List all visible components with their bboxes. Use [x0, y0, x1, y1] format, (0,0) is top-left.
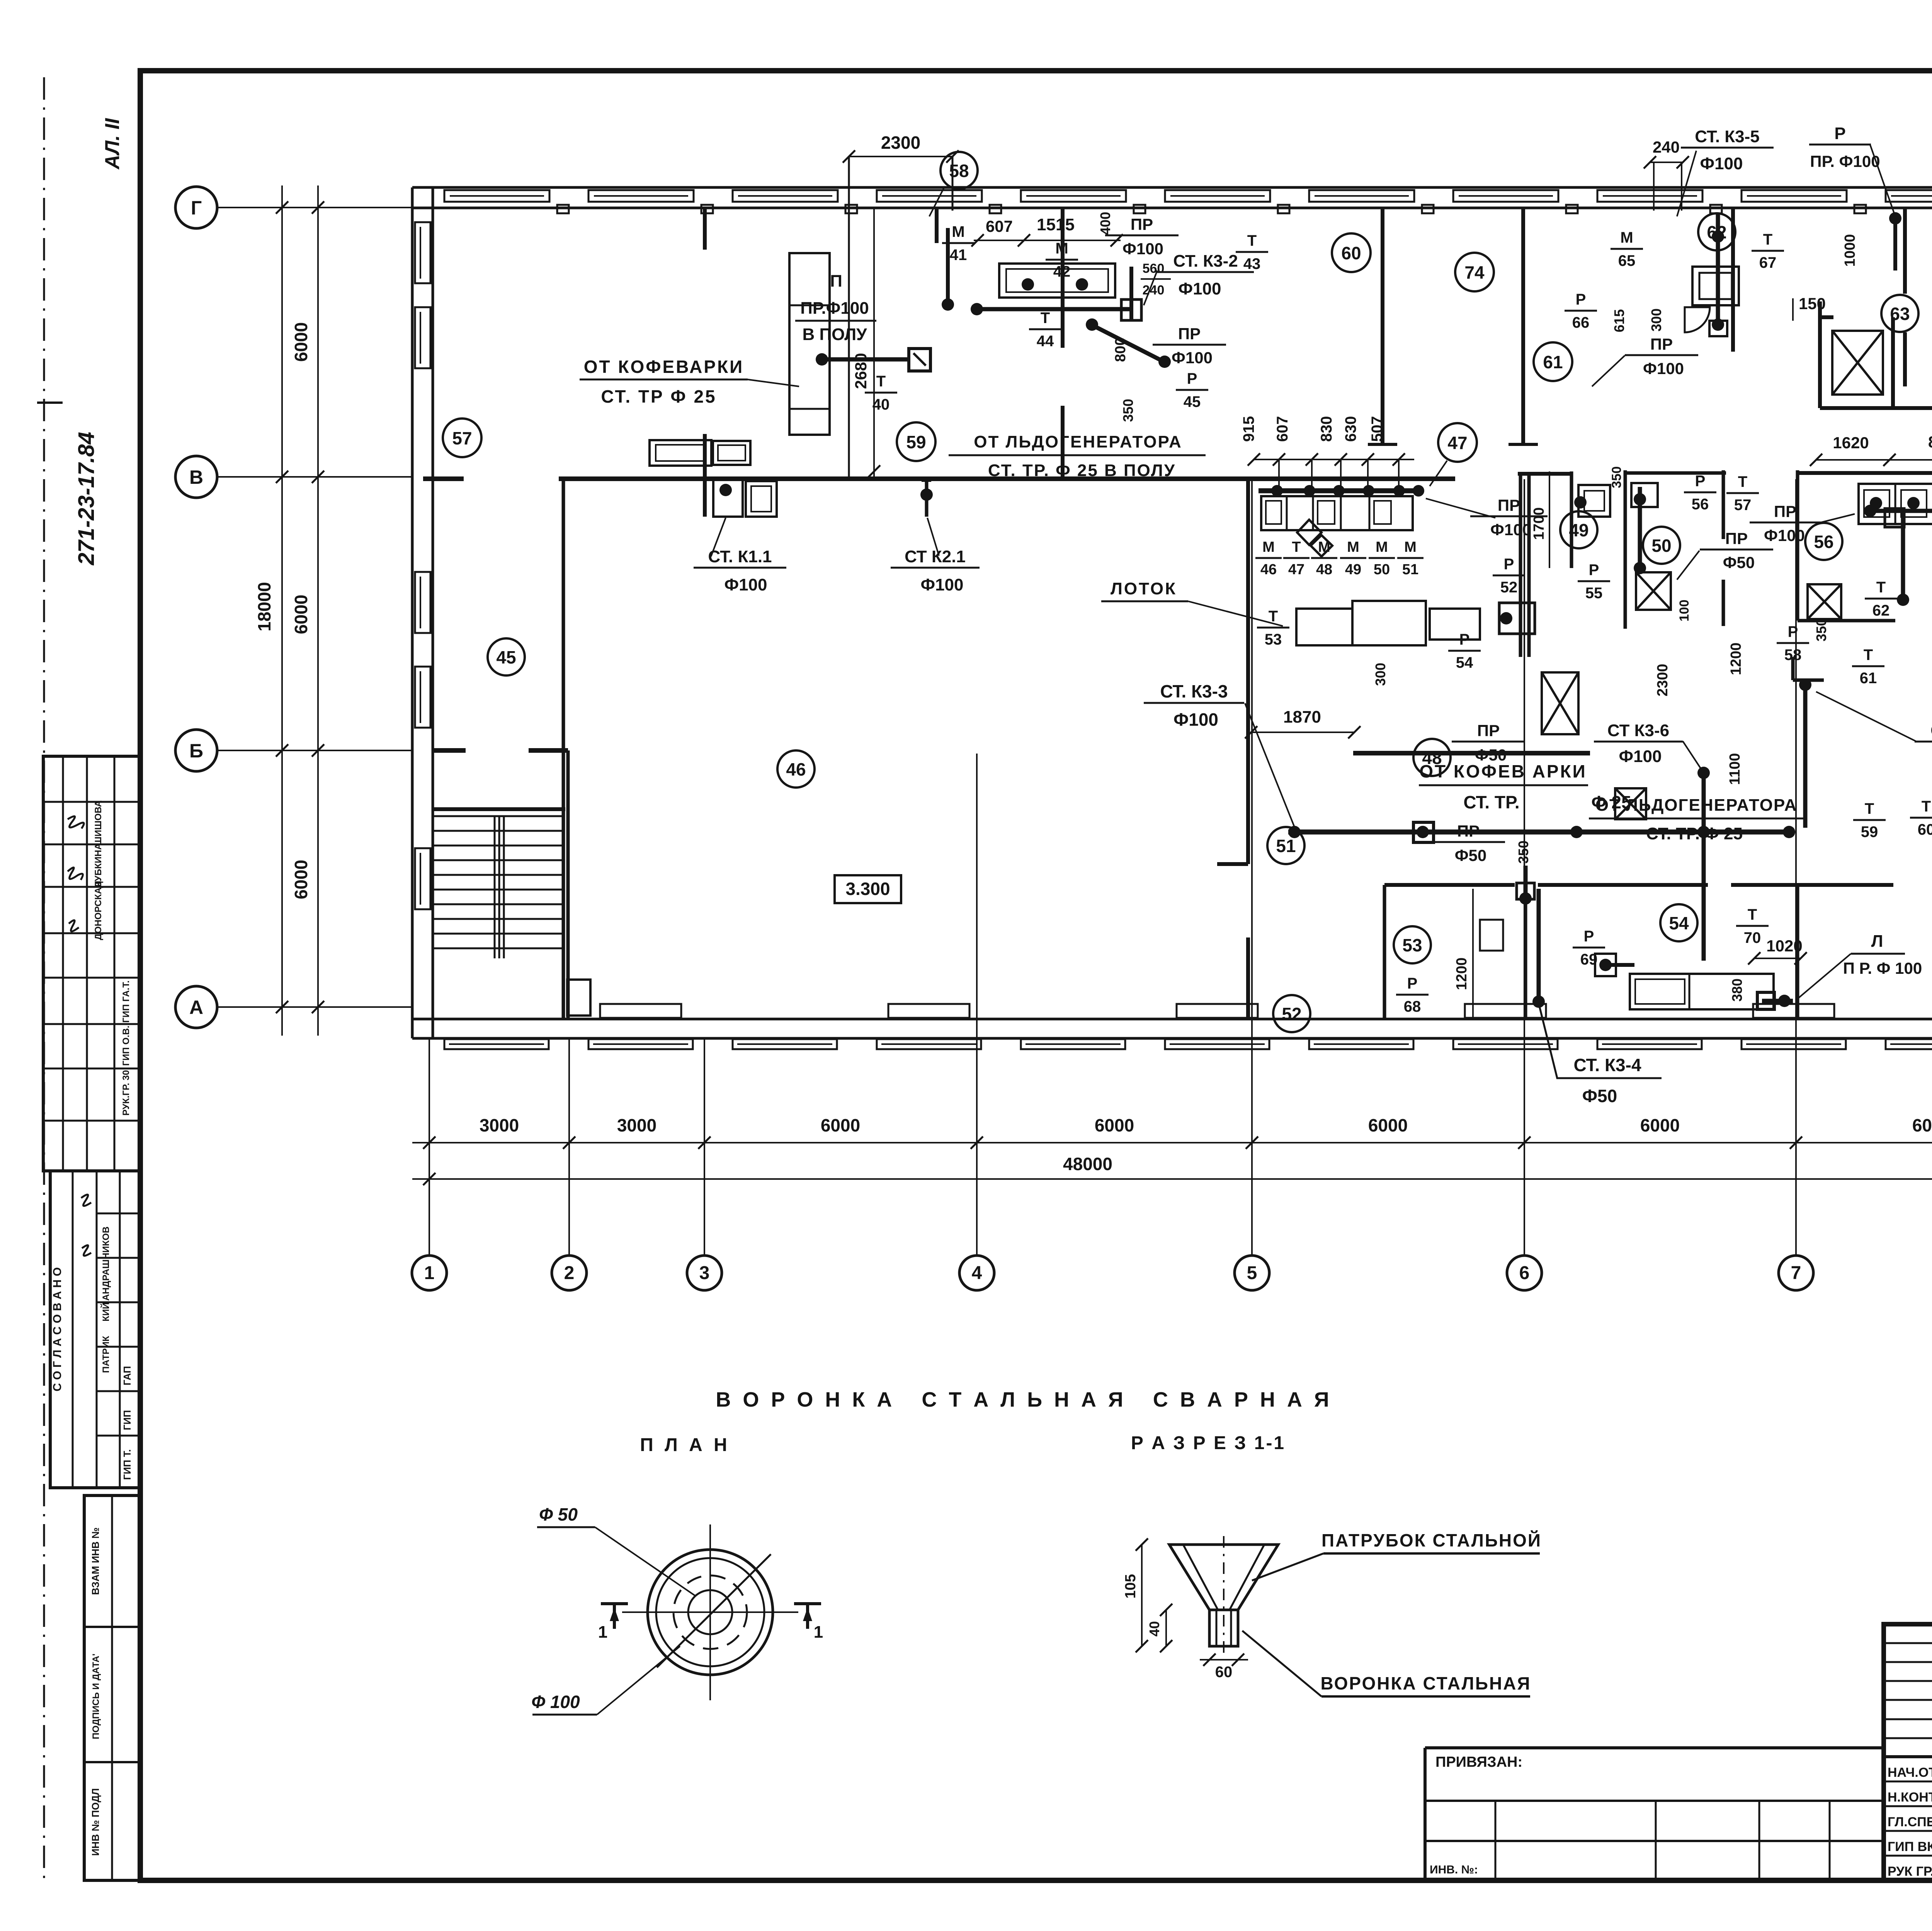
svg-text:49: 49 [1345, 561, 1361, 578]
room 59 circle [897, 422, 935, 461]
svg-text:Ф100: Ф100 [1179, 279, 1221, 298]
svg-text:ОТ КОФЕВ АРКИ: ОТ КОФЕВ АРКИ [1419, 761, 1587, 781]
pipe run М41-42 [974, 307, 1131, 311]
svg-text:Т: Т [1876, 579, 1886, 596]
dim 1020 [1754, 958, 1801, 959]
svg-text:56: 56 [1814, 532, 1833, 552]
stamp signatures scribbles [68, 816, 84, 829]
svg-text:ПР: ПР [1178, 325, 1201, 343]
fold mark dash-dot line [43, 77, 45, 1878]
room 62 circle [1698, 213, 1735, 250]
svg-text:Т: Т [1763, 231, 1772, 248]
svg-text:Ф100: Ф100 [1643, 359, 1684, 378]
tee fitting В ПОЛУ [909, 349, 930, 371]
svg-text:Н.КОНТР.: Н.КОНТР. [1888, 1790, 1932, 1805]
svg-text:50: 50 [1374, 561, 1390, 578]
svg-text:СТ. К3-3: СТ. К3-3 [1160, 681, 1228, 701]
svg-text:2300: 2300 [1655, 664, 1671, 697]
svg-text:Т: Т [1748, 906, 1757, 923]
svg-text:Л: Л [1871, 932, 1883, 951]
partition x4652 lower (axis 7) [1796, 885, 1799, 1019]
svg-text:М: М [1376, 539, 1388, 555]
svg-text:Т: Т [1864, 647, 1873, 664]
top wall windows [444, 190, 549, 202]
svg-text:54: 54 [1456, 654, 1473, 671]
svg-text:СТ К3-6: СТ К3-6 [1607, 721, 1669, 740]
svg-text:40: 40 [872, 396, 890, 413]
svg-text:607: 607 [1274, 416, 1291, 442]
left stamp: lower boxes ВЗАМ/ПОДПИСЬ/ИНВ [84, 1495, 140, 1880]
stair treads left stairwell [434, 815, 563, 817]
svg-text:РУК.ГР. 30: РУК.ГР. 30 [121, 1070, 131, 1116]
svg-text:55: 55 [1585, 585, 1603, 602]
svg-text:СТ К2.1: СТ К2.1 [905, 547, 966, 566]
svg-text:АЛ. II: АЛ. II [101, 118, 124, 170]
riser К3-7 zone [1799, 679, 1811, 691]
row axis circle Г [175, 187, 217, 228]
svg-text:46: 46 [786, 759, 806, 779]
fixture with dot near 3945 wall [1499, 603, 1535, 634]
room 56 pipes [1866, 509, 1932, 513]
svg-text:6000: 6000 [1912, 1115, 1932, 1135]
room 62 washbasin [1692, 267, 1739, 305]
svg-text:В О Р О Н К А С Т А Л Ь Н А: В О Р О Н К А С Т А Л Ь Н А Я С В А Р Н … [716, 1388, 1332, 1411]
svg-text:ГЛ.СПЕЦ.: ГЛ.СПЕЦ. [1888, 1815, 1932, 1829]
svg-text:560: 560 [1143, 261, 1165, 276]
witness line 2300 right [952, 157, 954, 211]
bay dimension line with ticks [412, 1142, 1932, 1143]
svg-text:М: М [1318, 539, 1330, 555]
column axis circle 6 [1507, 1256, 1542, 1290]
bottom wall windows [444, 1039, 549, 1049]
dim 1200 rotated rm53 [1472, 889, 1474, 1019]
svg-text:3000: 3000 [617, 1115, 656, 1135]
room 50 riser [1638, 487, 1642, 572]
svg-text:57: 57 [1734, 497, 1752, 514]
svg-text:6000: 6000 [291, 322, 311, 362]
svg-text:Ф100: Ф100 [724, 575, 767, 594]
svg-text:Т: Т [1041, 310, 1050, 327]
room 45 circle [488, 638, 525, 675]
row axis circle В [175, 456, 217, 498]
svg-text:3: 3 [699, 1263, 710, 1283]
svg-text:ОТ КОФЕВАРКИ: ОТ КОФЕВАРКИ [584, 357, 744, 377]
partition x3945 rooms 47|49 [1519, 474, 1522, 657]
svg-text:1: 1 [598, 1623, 607, 1642]
column axis circle 2 [552, 1256, 587, 1290]
svg-text:ПР: ПР [1650, 335, 1673, 353]
svg-text:СТ. ТР. Ф 25: СТ. ТР. Ф 25 [1646, 824, 1743, 843]
svg-text:М: М [1347, 539, 1359, 555]
dim 1870 [1251, 732, 1354, 733]
room 54 appliance counter [1630, 974, 1774, 1009]
building top exterior wall [412, 186, 1932, 189]
svg-text:100: 100 [1677, 600, 1692, 622]
svg-text:240: 240 [1653, 138, 1680, 156]
svg-text:70: 70 [1744, 929, 1761, 946]
svg-text:271-23-17.84: 271-23-17.84 [74, 432, 99, 565]
svg-text:48: 48 [1316, 561, 1332, 578]
pipe from coffee maker [816, 353, 828, 366]
svg-text:В: В [189, 466, 203, 488]
thick pipe run lower kitchen [1288, 830, 1793, 835]
svg-text:В ПОЛУ: В ПОЛУ [803, 325, 867, 344]
fold tick [37, 402, 63, 404]
svg-text:ПР: ПР [1457, 822, 1480, 840]
room 58 circle [940, 152, 978, 189]
svg-text:56: 56 [1692, 496, 1709, 513]
room 53 circle [1394, 926, 1431, 963]
svg-text:Р: Р [1459, 631, 1470, 648]
svg-text:18000: 18000 [254, 582, 274, 631]
left stair top wall [432, 807, 565, 811]
funnel section trapezoid [1169, 1545, 1278, 1610]
stub walls room 58 [1791, 657, 1795, 680]
room 74 circle [1455, 253, 1494, 291]
svg-text:62: 62 [1707, 222, 1726, 242]
svg-text:ГИП ВК: ГИП ВК [1888, 1839, 1932, 1854]
svg-text:45: 45 [1184, 393, 1201, 410]
svg-text:Ф100: Ф100 [1764, 526, 1805, 544]
partition room 60 west [1381, 207, 1384, 444]
witness drops to counter [1278, 459, 1280, 494]
svg-text:63: 63 [1890, 304, 1910, 324]
svg-text:Т: Т [876, 373, 886, 390]
column axis circle 3 [687, 1256, 722, 1290]
funnel plan diagonal [657, 1554, 771, 1667]
svg-text:615: 615 [1611, 309, 1627, 332]
svg-text:42: 42 [1053, 263, 1071, 280]
svg-text:1700: 1700 [1531, 507, 1547, 540]
partition x1820 stub [703, 208, 707, 250]
room 63 shaft walls [1818, 301, 1822, 408]
svg-text:48000: 48000 [1063, 1154, 1112, 1174]
svg-text:400: 400 [1097, 212, 1113, 235]
svg-text:Ф100: Ф100 [1172, 349, 1213, 367]
svg-text:ГИП: ГИП [121, 1410, 133, 1430]
svg-text:6000: 6000 [291, 860, 311, 899]
room 63 west stub walls [1903, 208, 1907, 294]
svg-text:53: 53 [1402, 935, 1422, 955]
row axis circle Б [175, 730, 217, 771]
room 57 circle [443, 419, 481, 457]
column axis circle 5 [1235, 1256, 1269, 1290]
svg-text:5: 5 [1247, 1263, 1257, 1283]
svg-text:Ф 100: Ф 100 [531, 1692, 580, 1712]
svg-text:ПР: ПР [1477, 721, 1500, 740]
svg-text:Ф100: Ф100 [1700, 154, 1743, 173]
total dimension line 48000 [412, 1178, 1932, 1180]
svg-text:СТ. К3-7: СТ. К3-7 [1930, 721, 1932, 740]
svg-text:3.300: 3.300 [845, 879, 890, 899]
kitchen fixtures row [1261, 496, 1413, 530]
title block left thin rows [1884, 1642, 1932, 1644]
stub and dot СТ К2.1 [925, 480, 929, 517]
partition x3948 lower [1524, 885, 1527, 1019]
svg-text:П: П [830, 272, 842, 291]
svg-text:74: 74 [1464, 262, 1485, 282]
svg-text:ПР.Ф100: ПР.Ф100 [800, 299, 869, 318]
svg-text:Ф50: Ф50 [1455, 846, 1487, 864]
svg-text:ПР: ПР [1131, 215, 1153, 233]
kitchen appliance boxes 48 [1296, 609, 1352, 645]
svg-text:Г: Г [191, 197, 202, 219]
svg-text:65: 65 [1618, 252, 1636, 269]
corridor wall north of rooms 56-64 [1798, 471, 1932, 475]
svg-text:Т: Т [1922, 798, 1931, 815]
riser dots near axis 6 top [1889, 212, 1901, 225]
pipe vertical to К3-6 [1702, 767, 1706, 961]
svg-text:840: 840 [1928, 433, 1932, 451]
svg-text:Р: Р [1407, 975, 1418, 992]
dim 60 [1200, 1659, 1248, 1660]
svg-text:Ф50: Ф50 [1723, 553, 1755, 572]
svg-text:41: 41 [950, 247, 967, 264]
dim line 2680 vertical [873, 209, 875, 476]
svg-text:59: 59 [906, 432, 926, 452]
room 56 sink counter [1859, 484, 1932, 524]
svg-text:66: 66 [1572, 314, 1590, 331]
svg-text:Р: Р [1576, 291, 1586, 308]
svg-text:6000: 6000 [1640, 1115, 1680, 1135]
room 56 X box [1808, 584, 1841, 619]
room 56 circle [1805, 523, 1842, 560]
svg-text:ЛОТОК: ЛОТОК [1111, 579, 1177, 598]
svg-text:150: 150 [1799, 294, 1826, 313]
Привязан section [1425, 1746, 1884, 1749]
svg-text:Ф50: Ф50 [1582, 1086, 1617, 1106]
svg-text:ШИШОВА: ШИШОВА [93, 800, 104, 846]
wall below 56 [1798, 619, 1895, 623]
svg-text:60: 60 [1918, 821, 1932, 838]
svg-text:Р: Р [1504, 556, 1514, 573]
funnel plan concentric circles [648, 1550, 773, 1675]
svg-text:60: 60 [1215, 1664, 1233, 1681]
svg-text:47: 47 [1447, 433, 1467, 453]
svg-text:М: М [1055, 240, 1068, 257]
tee box К3-2 [1121, 299, 1141, 320]
svg-text:105: 105 [1122, 1574, 1139, 1598]
bottom exterior wall [412, 1018, 1932, 1021]
svg-text:7: 7 [1791, 1263, 1801, 1283]
svg-text:62: 62 [1872, 602, 1890, 619]
svg-text:Т: Т [1865, 800, 1874, 817]
svg-text:М: М [1262, 539, 1275, 555]
svg-text:915: 915 [1240, 416, 1257, 442]
room 49 circle [1560, 511, 1597, 548]
room 63 circle [1881, 295, 1918, 332]
X boxes mid [1542, 672, 1578, 734]
partition x2424 stub [935, 208, 939, 243]
svg-text:58: 58 [949, 161, 969, 181]
column axis circle 7 [1779, 1256, 1813, 1290]
witness line 2300 left [848, 157, 850, 476]
svg-text:РУК ГР.: РУК ГР. [1888, 1864, 1932, 1879]
svg-text:Ф 50: Ф 50 [539, 1504, 578, 1524]
column axis circle 4 [959, 1256, 994, 1290]
left stair east wall [562, 481, 565, 1019]
svg-text:ПРИВЯЗАН:: ПРИВЯЗАН: [1435, 1754, 1522, 1770]
Привязан small grid [1425, 1800, 1884, 1802]
svg-text:Ф100: Ф100 [1173, 709, 1218, 730]
svg-text:С О Г Л А С О В А Н О: С О Г Л А С О В А Н О [51, 1267, 64, 1391]
svg-text:44: 44 [1037, 333, 1054, 350]
svg-text:ГИП О.В.: ГИП О.В. [121, 1026, 131, 1066]
room 49 duct [1570, 471, 1573, 568]
svg-text:60: 60 [1341, 243, 1361, 263]
lobby door leaf [567, 980, 590, 1016]
row axis dimension lines (18000 / 6000) [281, 185, 283, 1036]
room 60 circle [1332, 233, 1371, 272]
svg-text:Ф100: Ф100 [1122, 240, 1163, 258]
svg-text:ГИП ГА.Т.: ГИП ГА.Т. [121, 980, 131, 1023]
svg-text:ОТ ЛЬДОГЕНЕРАТОРА: ОТ ЛЬДОГЕНЕРАТОРА [1595, 796, 1798, 815]
svg-text:П Л А Н: П Л А Н [640, 1435, 730, 1455]
room 62 riser pipe [1716, 214, 1720, 327]
small box К3-4 side [1595, 954, 1616, 976]
svg-text:Ф100: Ф100 [1490, 521, 1531, 539]
svg-text:4: 4 [972, 1263, 982, 1283]
svg-text:350: 350 [1813, 618, 1829, 641]
dim 40 rotated [1165, 1610, 1167, 1646]
partition rooms 50|56 [1796, 470, 1799, 621]
svg-text:1515: 1515 [1037, 215, 1075, 234]
room 50 circle [1643, 527, 1680, 564]
left exterior wall [411, 187, 414, 1038]
kitchen dim tick line [1254, 459, 1414, 460]
svg-text:Р: Р [1187, 370, 1197, 387]
riser dot ПР Ф100 [946, 228, 950, 305]
dims 1620 840 and М/64 [1816, 459, 1932, 461]
svg-text:6000: 6000 [1368, 1115, 1408, 1135]
svg-text:СТ. К3-5: СТ. К3-5 [1695, 127, 1760, 146]
svg-text:АНДРАШНИКОВ: АНДРАШНИКОВ [101, 1227, 111, 1301]
svg-text:1: 1 [814, 1623, 823, 1642]
svg-text:Р: Р [1834, 124, 1845, 143]
partition room 74|61 [1521, 207, 1525, 444]
svg-text:300: 300 [1648, 308, 1664, 332]
svg-text:ПАТРУБОК СТАЛЬНОЙ: ПАТРУБОК СТАЛЬНОЙ [1321, 1530, 1542, 1550]
rooms 52/53/54 north wall [1384, 883, 1515, 887]
tee box at 48 [1413, 822, 1434, 842]
corridor wall В kitchen segment [1518, 472, 1572, 476]
svg-text:СТ. К1.1: СТ. К1.1 [708, 547, 772, 566]
room 50 walls [1624, 470, 1627, 629]
title block outer box [1884, 1624, 1932, 1880]
svg-text:2300: 2300 [881, 133, 920, 153]
svg-text:Р: Р [1589, 561, 1599, 578]
room 46 circle [777, 750, 815, 788]
svg-text:67: 67 [1759, 254, 1777, 271]
svg-text:Т: Т [1292, 539, 1301, 555]
sink partition below В wall [703, 434, 707, 517]
svg-text:Р: Р [1695, 473, 1706, 490]
svg-text:59: 59 [1861, 823, 1878, 840]
svg-text:46: 46 [1260, 561, 1277, 578]
svg-text:1020: 1020 [1766, 937, 1802, 955]
svg-text:СТ. ТР.: СТ. ТР. [1463, 792, 1519, 812]
dim 105 rotated [1141, 1545, 1143, 1646]
tall counter room 59 [789, 253, 830, 435]
washbasins above corridor wall [650, 440, 711, 466]
svg-text:КИЙ: КИЙ [100, 1302, 111, 1321]
svg-text:3000: 3000 [480, 1115, 519, 1135]
svg-text:ВЗАМ ИНВ №: ВЗАМ ИНВ № [90, 1528, 101, 1595]
svg-text:43: 43 [1243, 255, 1261, 272]
room 63 duct X box [1832, 331, 1883, 395]
svg-text:СТ. К3-2: СТ. К3-2 [1173, 252, 1238, 271]
dimension 2300 top [849, 156, 952, 157]
svg-text:6000: 6000 [821, 1115, 860, 1135]
svg-text:ГАП: ГАП [121, 1366, 133, 1385]
svg-text:45: 45 [496, 647, 516, 667]
svg-text:630: 630 [1342, 416, 1359, 442]
svg-text:СТ. К3-4: СТ. К3-4 [1573, 1055, 1641, 1075]
svg-text:Б: Б [189, 740, 203, 762]
svg-text:6000: 6000 [1095, 1115, 1134, 1135]
svg-text:350: 350 [1609, 466, 1624, 488]
svg-text:ОТ ЛЬДОГЕНЕРАТОРА: ОТ ЛЬДОГЕНЕРАТОРА [974, 432, 1182, 451]
room 54 circle [1660, 904, 1697, 941]
svg-text:57: 57 [452, 428, 472, 448]
svg-text:ДОНОРСКАЯ: ДОНОРСКАЯ [93, 881, 104, 940]
stair rails left stairwell [494, 816, 496, 958]
room 64 north wall [1893, 406, 1932, 410]
svg-text:52: 52 [1282, 1004, 1301, 1024]
svg-text:М: М [1404, 539, 1417, 555]
dim 240 and st K3-5 labels top [1650, 162, 1683, 163]
svg-text:ПР: ПР [1498, 496, 1520, 514]
left stamp table: signatures block [43, 756, 140, 1171]
svg-text:ИНВ. №:: ИНВ. №: [1430, 1863, 1478, 1876]
svg-text:ПР. Ф100: ПР. Ф100 [1810, 152, 1880, 170]
svg-text:300: 300 [1372, 663, 1388, 686]
svg-text:ГИП Т.: ГИП Т. [121, 1449, 133, 1480]
svg-text:СТ. ТР. Ф 25 В ПОЛУ: СТ. ТР. Ф 25 В ПОЛУ [988, 461, 1176, 480]
room 48 circle [1413, 739, 1451, 776]
svg-text:51: 51 [1276, 836, 1296, 856]
svg-text:54: 54 [1669, 913, 1689, 933]
svg-text:Ф100: Ф100 [921, 575, 964, 594]
svg-text:ПР: ПР [1774, 502, 1796, 521]
svg-text:НАЧ.ОТД.: НАЧ.ОТД. [1888, 1765, 1932, 1780]
svg-text:ПОДПИСЬ И ДАТА': ПОДПИСЬ И ДАТА' [91, 1654, 101, 1739]
svg-text:1200: 1200 [1454, 958, 1470, 990]
svg-text:40: 40 [1146, 1621, 1162, 1637]
row axis circle А [175, 986, 217, 1028]
svg-text:П Р. Ф 100: П Р. Ф 100 [1843, 959, 1922, 977]
svg-text:53: 53 [1265, 631, 1282, 648]
svg-text:47: 47 [1288, 561, 1304, 578]
partition hall 45|46 [562, 481, 565, 748]
partition between rooms 59 and 60 [1061, 208, 1065, 348]
svg-text:607: 607 [986, 217, 1013, 235]
svg-text:Т: Т [1269, 608, 1278, 625]
svg-text:Т: Т [1247, 232, 1257, 249]
column axis circle 1 [412, 1256, 447, 1290]
svg-text:68: 68 [1404, 998, 1421, 1015]
svg-text:1200: 1200 [1728, 643, 1744, 675]
svg-text:6: 6 [1519, 1263, 1530, 1283]
column axis grid lines [429, 1038, 430, 1256]
svg-text:6000: 6000 [291, 595, 311, 634]
svg-text:М: М [952, 223, 964, 240]
svg-text:52: 52 [1500, 579, 1518, 596]
svg-text:1620: 1620 [1833, 434, 1869, 452]
svg-text:507: 507 [1369, 416, 1386, 442]
svg-text:61: 61 [1860, 670, 1877, 687]
svg-text:ВОРОНКА СТАЛЬНАЯ: ВОРОНКА СТАЛЬНАЯ [1321, 1673, 1531, 1693]
